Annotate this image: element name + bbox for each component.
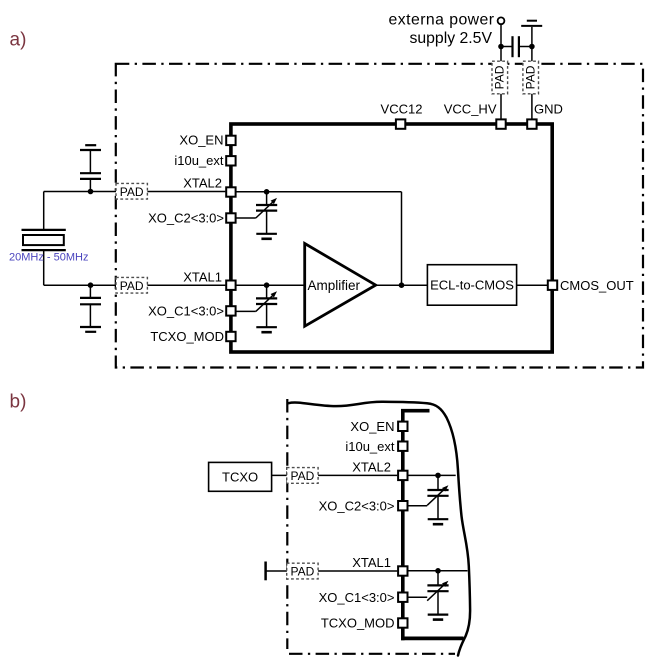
svg-text:XO_C1<3:0>: XO_C1<3:0>	[319, 590, 395, 605]
svg-text:XO_C2<3:0>: XO_C2<3:0>	[319, 498, 395, 513]
svg-text:PAD: PAD	[120, 279, 144, 293]
svg-text:a): a)	[10, 29, 27, 50]
svg-text:CMOS_OUT: CMOS_OUT	[560, 278, 634, 293]
svg-text:i10u_ext: i10u_ext	[345, 439, 395, 454]
svg-text:XO_EN: XO_EN	[350, 419, 394, 434]
svg-text:PAD: PAD	[120, 185, 144, 199]
svg-text:VCC_HV: VCC_HV	[444, 102, 497, 117]
svg-text:20MHz - 50MHz: 20MHz - 50MHz	[9, 252, 88, 264]
svg-text:XO_C2<3:0>: XO_C2<3:0>	[148, 210, 224, 225]
svg-text:ECL-to-CMOS: ECL-to-CMOS	[430, 278, 514, 293]
svg-text:i10u_ext: i10u_ext	[174, 153, 224, 168]
svg-text:supply 2.5V: supply 2.5V	[409, 30, 492, 47]
svg-text:b): b)	[10, 392, 27, 413]
svg-text:TCXO: TCXO	[222, 469, 258, 484]
svg-text:PAD: PAD	[291, 565, 315, 579]
svg-text:Amplifier: Amplifier	[308, 278, 361, 293]
svg-text:TCXO_MOD: TCXO_MOD	[150, 329, 224, 344]
svg-text:PAD: PAD	[493, 65, 507, 89]
svg-text:externa power: externa power	[389, 12, 495, 29]
svg-text:XO_C1<3:0>: XO_C1<3:0>	[148, 303, 224, 318]
svg-text:XTAL2: XTAL2	[183, 176, 222, 191]
svg-text:XO_EN: XO_EN	[179, 132, 223, 147]
svg-text:XTAL2: XTAL2	[352, 460, 391, 475]
svg-text:PAD: PAD	[291, 469, 315, 483]
svg-text:XTAL1: XTAL1	[183, 269, 222, 284]
svg-text:GND: GND	[534, 102, 563, 117]
svg-text:VCC12: VCC12	[381, 102, 423, 117]
svg-text:PAD: PAD	[524, 65, 538, 89]
svg-text:TCXO_MOD: TCXO_MOD	[321, 616, 395, 631]
svg-text:XTAL1: XTAL1	[352, 555, 391, 570]
